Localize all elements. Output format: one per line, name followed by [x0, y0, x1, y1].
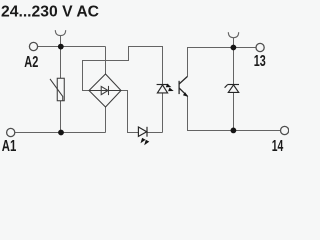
phototransistor emitter arrow — [183, 92, 188, 97]
svg-text:14: 14 — [272, 138, 284, 153]
wire collector up and top wire to terminal 13 — [188, 48, 256, 77]
node 13 junction — [231, 45, 237, 51]
wire emitter down and bottom wire to terminal 14 — [188, 96, 281, 130]
terminal A1 — [7, 128, 15, 136]
indicator LED emission arrows — [141, 138, 150, 145]
opto LED D2 — [157, 85, 169, 93]
wire zener branch lower — [233, 93, 235, 131]
node A1 junction — [58, 130, 64, 136]
zener diode D4 — [225, 85, 239, 93]
node 14 junction — [231, 127, 237, 133]
indicator LED D3 — [138, 127, 147, 137]
wire A2 horizontal to bridge feed — [38, 46, 106, 48]
bridge rectifier B1 — [89, 74, 121, 107]
wire A1 horizontal — [15, 132, 106, 134]
phototransistor Q1 — [179, 76, 187, 96]
svg-text:24...230 V AC: 24...230 V AC — [1, 4, 99, 21]
wire bridge left corner to opto LED route — [83, 47, 163, 91]
svg-text:A1: A1 — [2, 138, 17, 153]
node A2 junction — [58, 44, 64, 50]
wire bridge bottom feed vertical — [105, 107, 107, 133]
wire opto LED anode down to indicator junction — [162, 93, 164, 133]
opto LED light arrows — [166, 84, 174, 92]
terminal 13 — [256, 43, 264, 51]
wire indicator LED cathode to corner — [147, 132, 163, 134]
wire left branch vertical lower (varistor to A1 junction) — [60, 101, 62, 133]
wire zener branch upper — [233, 48, 235, 85]
terminal 14 — [281, 126, 289, 134]
terminal A2 — [29, 42, 37, 50]
wire left branch vertical upper (junction to varistor) — [60, 47, 62, 79]
fork connector symbol left — [55, 30, 65, 44]
wire bridge top feed vertical — [105, 47, 107, 75]
fork connector symbol right — [228, 32, 238, 47]
svg-text:13: 13 — [254, 53, 266, 70]
svg-text:A2: A2 — [24, 54, 38, 71]
wire bridge right corner to indicator LED route — [121, 91, 138, 133]
varistor RV1 — [50, 78, 64, 101]
